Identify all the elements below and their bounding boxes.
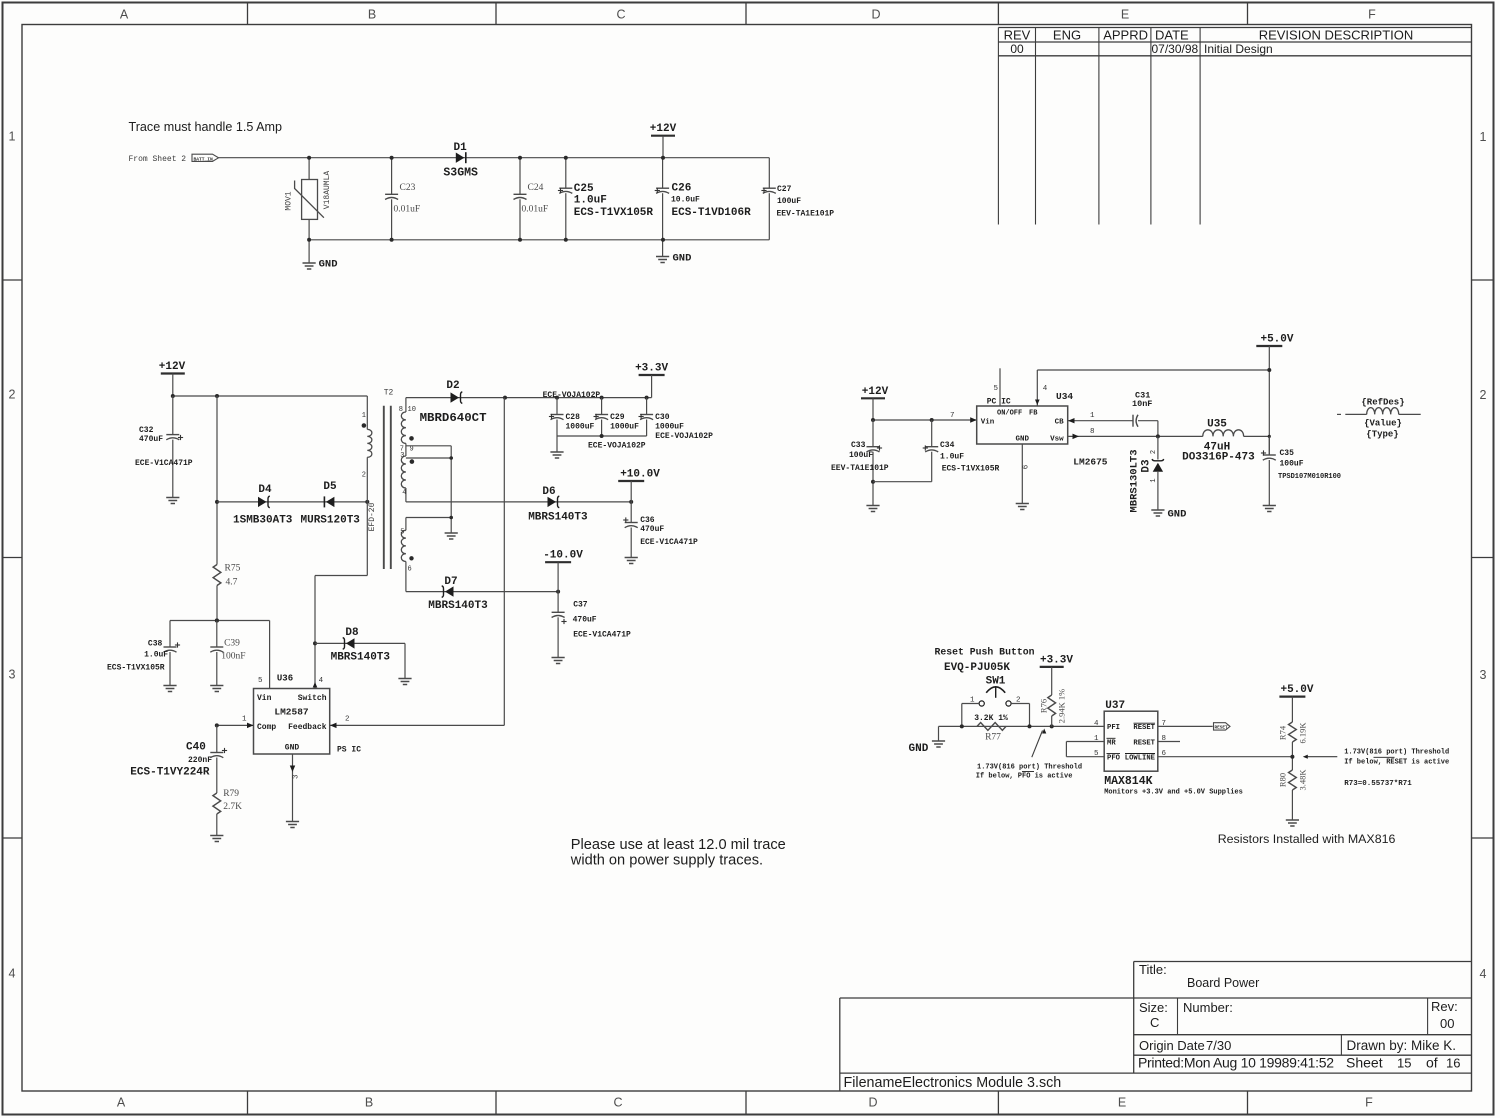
svg-text:2: 2 [1150,450,1158,454]
svg-text:Printed:Mon Aug 10 19989:41:52: Printed:Mon Aug 10 19989:41:52 [1138,1055,1334,1071]
svg-text:D: D [871,8,880,22]
svg-text:4: 4 [1480,967,1487,981]
svg-text:C34: C34 [940,441,955,450]
svg-text:{Type}: {Type} [1366,430,1398,440]
svg-text:Number:: Number: [1183,1000,1233,1015]
svg-text:100nF: 100nF [221,652,245,662]
svg-text:1: 1 [9,130,16,144]
svg-text:470uF: 470uF [573,616,597,625]
svg-text:Reset Push Button: Reset Push Button [935,647,1035,658]
svg-text:U37: U37 [1105,700,1125,712]
svg-text:4.7: 4.7 [226,578,238,588]
svg-text:4: 4 [9,967,16,981]
svg-text:220nF: 220nF [188,756,212,765]
svg-text:1.0uF: 1.0uF [574,195,607,207]
svg-text:RESET: RESET [1215,726,1229,731]
svg-text:2: 2 [9,388,16,402]
svg-text:Initial Design: Initial Design [1204,42,1273,56]
svg-text:U35: U35 [1207,419,1227,431]
svg-text:8: 8 [399,406,403,414]
svg-text:D6: D6 [542,486,555,498]
svg-text:Vin: Vin [257,694,272,703]
svg-text:ECS-T1VY224R: ECS-T1VY224R [130,767,210,779]
svg-text:E: E [1121,8,1129,22]
svg-text:A: A [120,8,129,22]
svg-text:PFO: PFO [1107,755,1121,763]
svg-text:width on power supply traces.: width on power supply traces. [570,853,763,869]
svg-text:1000uF: 1000uF [655,423,684,432]
svg-text:R73=0.55737*R71: R73=0.55737*R71 [1344,780,1412,788]
svg-text:Origin Date: Origin Date [1139,1038,1205,1053]
svg-text:D3: D3 [1141,459,1153,473]
svg-text:MBRS130LT3: MBRS130LT3 [1129,449,1141,512]
svg-text:C29: C29 [610,413,625,422]
svg-text:C23: C23 [400,183,416,193]
svg-text:If below, RESET is active: If below, RESET is active [1344,759,1449,767]
svg-text:R77: R77 [985,733,1001,743]
svg-text:Vin: Vin [981,419,995,427]
svg-text:of: of [1426,1055,1438,1071]
svg-text:C39: C39 [224,639,240,649]
svg-text:GND: GND [319,259,338,271]
svg-text:MBRS140T3: MBRS140T3 [428,600,488,612]
svg-text:C26: C26 [672,183,692,195]
svg-text:5: 5 [400,529,404,537]
svg-text:FilenameElectronics Module 3.s: FilenameElectronics Module 3.sch [844,1075,1062,1091]
svg-text:9: 9 [410,446,414,454]
svg-text:Rev:: Rev: [1431,999,1458,1014]
svg-text:D2: D2 [446,380,459,392]
svg-text:B: B [368,8,376,22]
svg-text:1SMB30AT3: 1SMB30AT3 [233,515,293,527]
svg-text:470uF: 470uF [139,435,163,444]
svg-text:ECS-T1VX105R: ECS-T1VX105R [942,465,1000,474]
svg-text:4: 4 [1043,385,1048,393]
svg-text:ENG: ENG [1053,28,1081,43]
svg-text:C30: C30 [655,413,670,422]
svg-text:3: 3 [1480,668,1487,682]
svg-text:ECS-T1VD106R: ECS-T1VD106R [672,207,752,219]
svg-text:Feedback: Feedback [288,723,327,732]
svg-text:Title:: Title: [1139,962,1167,977]
svg-text:If below, PFO is active: If below, PFO is active [976,773,1073,781]
svg-text:4: 4 [402,489,406,497]
svg-text:C36: C36 [640,516,655,525]
svg-text:ECE-V1CA471P: ECE-V1CA471P [573,631,631,640]
svg-text:D: D [868,1096,877,1110]
svg-text:BATT_IN: BATT_IN [194,156,214,162]
svg-text:0.01uF: 0.01uF [522,205,549,215]
svg-text:LM2675: LM2675 [1073,457,1108,468]
svg-text:Trace must handle 1.5 Amp: Trace must handle 1.5 Amp [129,120,283,134]
svg-text:R75: R75 [225,564,241,574]
svg-text:GND: GND [285,744,300,753]
svg-text:C: C [1150,1015,1159,1030]
svg-text:10nF: 10nF [1132,399,1152,409]
svg-text:GND: GND [1016,436,1030,444]
svg-text:+3.3V: +3.3V [635,363,668,375]
svg-text:Vsw: Vsw [1050,436,1064,444]
svg-text:07/30/98: 07/30/98 [1152,42,1199,56]
svg-text:3: 3 [293,774,301,779]
svg-text:T2: T2 [384,389,394,398]
svg-text:+12V: +12V [862,386,889,398]
svg-text:MBRD640CT: MBRD640CT [420,411,487,425]
svg-text:10: 10 [408,406,416,414]
svg-text:S3GMS: S3GMS [443,167,478,180]
svg-text:C35: C35 [1280,449,1295,458]
svg-text:00: 00 [1010,42,1024,56]
svg-text:5: 5 [993,385,998,393]
svg-text:MR: MR [1107,739,1116,747]
svg-text:EVQ-PJU05K: EVQ-PJU05K [944,662,1010,674]
svg-text:6: 6 [1023,464,1031,469]
svg-text:1.73V(816 port) Threshold: 1.73V(816 port) Threshold [977,763,1082,771]
svg-text:Size:: Size: [1139,1000,1168,1015]
svg-text:ECE-VOJA102P: ECE-VOJA102P [588,442,646,451]
svg-text:2: 2 [345,716,350,724]
svg-text:C: C [613,1096,622,1110]
svg-text:3.2K 1%: 3.2K 1% [974,714,1008,723]
svg-text:10.0uF: 10.0uF [671,196,700,205]
svg-text:4: 4 [1094,720,1099,728]
svg-text:TPSD107M010R100: TPSD107M010R100 [1278,473,1341,481]
svg-text:-10.0V: -10.0V [543,550,583,562]
svg-text:From Sheet 2: From Sheet 2 [129,155,187,164]
svg-text:V18AUMLA: V18AUMLA [323,171,332,210]
svg-text:C28: C28 [566,413,581,422]
svg-text:+5.0V: +5.0V [1280,684,1313,696]
svg-text:C24: C24 [528,183,544,193]
svg-text:3.48K: 3.48K [1298,769,1308,791]
svg-text:Resistors Installed with MAX81: Resistors Installed with MAX816 [1218,832,1396,846]
svg-text:PFI: PFI [1107,724,1120,732]
svg-text:1: 1 [1480,130,1487,144]
svg-text:3: 3 [9,668,16,682]
svg-text:GND: GND [1168,509,1187,521]
svg-text:ECS-T1VX105R: ECS-T1VX105R [107,664,165,673]
svg-text:C37: C37 [573,601,588,610]
svg-text:1: 1 [362,412,366,420]
svg-text:C32: C32 [139,426,154,435]
svg-text:EFD-20: EFD-20 [368,502,377,531]
svg-text:EEV-TA1E101P: EEV-TA1E101P [831,464,889,473]
svg-text:1.73V(816 port) Threshold: 1.73V(816 port) Threshold [1344,749,1449,757]
svg-text:8: 8 [1090,428,1095,436]
svg-text:+12V: +12V [650,123,677,135]
svg-text:DATE: DATE [1155,28,1189,43]
svg-text:MBRS140T3: MBRS140T3 [331,652,391,664]
svg-text:LM2587: LM2587 [274,707,309,718]
svg-text:1000uF: 1000uF [610,423,639,432]
svg-text:RESET: RESET [1133,739,1155,747]
svg-text:ECS-T1VX105R: ECS-T1VX105R [574,207,654,219]
svg-text:D1: D1 [454,142,468,154]
svg-text:470uF: 470uF [640,525,664,534]
svg-text:7: 7 [950,412,955,420]
svg-text:100uF: 100uF [849,451,873,460]
svg-text:A: A [117,1096,126,1110]
svg-text:PC IC: PC IC [987,398,1011,407]
svg-text:U34: U34 [1056,391,1073,402]
svg-text:R79: R79 [223,789,239,799]
svg-text:1.0uF: 1.0uF [144,651,168,660]
svg-text:EEV-TA1E101P: EEV-TA1E101P [777,210,835,219]
svg-text:MURS120T3: MURS120T3 [301,515,361,527]
svg-text:00: 00 [1440,1016,1454,1031]
svg-text:2: 2 [1480,388,1487,402]
svg-text:2.7K: 2.7K [223,802,242,812]
svg-text:15: 15 [1397,1056,1411,1071]
svg-text:5: 5 [258,677,263,685]
svg-text:MAX814K: MAX814K [1104,775,1152,788]
svg-text:D4: D4 [258,484,272,496]
svg-text:Please use at least 12.0 mil t: Please use at least 12.0 mil trace [571,837,786,853]
svg-text:MOV1: MOV1 [285,191,294,210]
svg-text:ECE-V1CA471P: ECE-V1CA471P [640,538,698,547]
svg-text:0.01uF: 0.01uF [394,205,421,215]
svg-text:DO3316P-473: DO3316P-473 [1182,452,1255,464]
svg-text:+10.0V: +10.0V [620,469,660,481]
svg-text:2.94K 1%: 2.94K 1% [1057,689,1067,723]
svg-text:6.19K: 6.19K [1298,722,1308,744]
svg-text:1000uF: 1000uF [566,423,595,432]
svg-text:Sheet: Sheet [1346,1055,1383,1071]
svg-text:100uF: 100uF [1280,460,1304,469]
svg-text:ECE-VOJA102P: ECE-VOJA102P [543,391,601,400]
svg-text:C33: C33 [851,441,866,450]
svg-text:APPRD: APPRD [1103,28,1148,43]
svg-text:MBRS140T3: MBRS140T3 [528,512,588,524]
svg-text:ON/OFF: ON/OFF [997,410,1022,418]
svg-text:2: 2 [362,472,366,480]
svg-text:REVISION DESCRIPTION: REVISION DESCRIPTION [1259,28,1414,43]
svg-text:Monitors +3.3V and +5.0V Suppl: Monitors +3.3V and +5.0V Supplies [1104,789,1243,797]
svg-text:RESET: RESET [1133,724,1155,732]
svg-text:F: F [1368,8,1376,22]
svg-text:C25: C25 [574,183,594,195]
svg-text:Switch: Switch [298,694,327,703]
svg-text:1: 1 [1150,478,1158,482]
svg-text:PS IC: PS IC [337,746,361,755]
svg-text:CB: CB [1055,419,1065,427]
svg-text:ECE-VOJA102P: ECE-VOJA102P [655,432,713,441]
svg-text:C38: C38 [148,640,163,649]
svg-text:C27: C27 [777,185,792,194]
svg-text:1: 1 [242,716,247,724]
svg-text:GND: GND [673,253,692,265]
svg-text:{Value}: {Value} [1364,419,1402,429]
svg-text:1.0uF: 1.0uF [940,453,964,462]
svg-text:REV: REV [1004,28,1031,43]
svg-text:4: 4 [319,677,324,685]
svg-text:+3.3V: +3.3V [1040,654,1073,666]
svg-text:SW1: SW1 [986,676,1006,688]
svg-text:16: 16 [1446,1056,1460,1071]
svg-text:+5.0V: +5.0V [1260,334,1293,346]
svg-text:D5: D5 [323,481,337,493]
svg-text:LOWLINE: LOWLINE [1125,755,1156,763]
svg-text:B: B [365,1096,373,1110]
svg-text:1: 1 [1090,412,1095,420]
svg-text:FB: FB [1029,410,1038,418]
svg-text:GND: GND [909,743,929,755]
svg-text:C40: C40 [186,742,206,754]
svg-text:R80: R80 [1278,773,1288,787]
svg-text:D7: D7 [444,576,457,588]
svg-text:7/30: 7/30 [1206,1038,1231,1053]
svg-text:Comp: Comp [257,723,276,732]
svg-text:Drawn by: Mike K.: Drawn by: Mike K. [1347,1038,1457,1053]
svg-text:{RefDes}: {RefDes} [1361,398,1404,408]
svg-text:D8: D8 [345,627,359,639]
svg-text:3: 3 [400,452,404,460]
svg-text:C: C [616,8,625,22]
svg-text:+12V: +12V [159,361,186,373]
svg-text:R76: R76 [1039,699,1049,713]
svg-text:U36: U36 [277,674,293,684]
svg-text:ECE-V1CA471P: ECE-V1CA471P [135,459,193,468]
svg-text:100uF: 100uF [777,197,801,206]
svg-text:F: F [1365,1096,1373,1110]
svg-text:Board Power: Board Power [1187,976,1259,990]
svg-text:6: 6 [408,566,412,574]
svg-text:R74: R74 [1278,725,1288,740]
svg-text:E: E [1118,1096,1126,1110]
